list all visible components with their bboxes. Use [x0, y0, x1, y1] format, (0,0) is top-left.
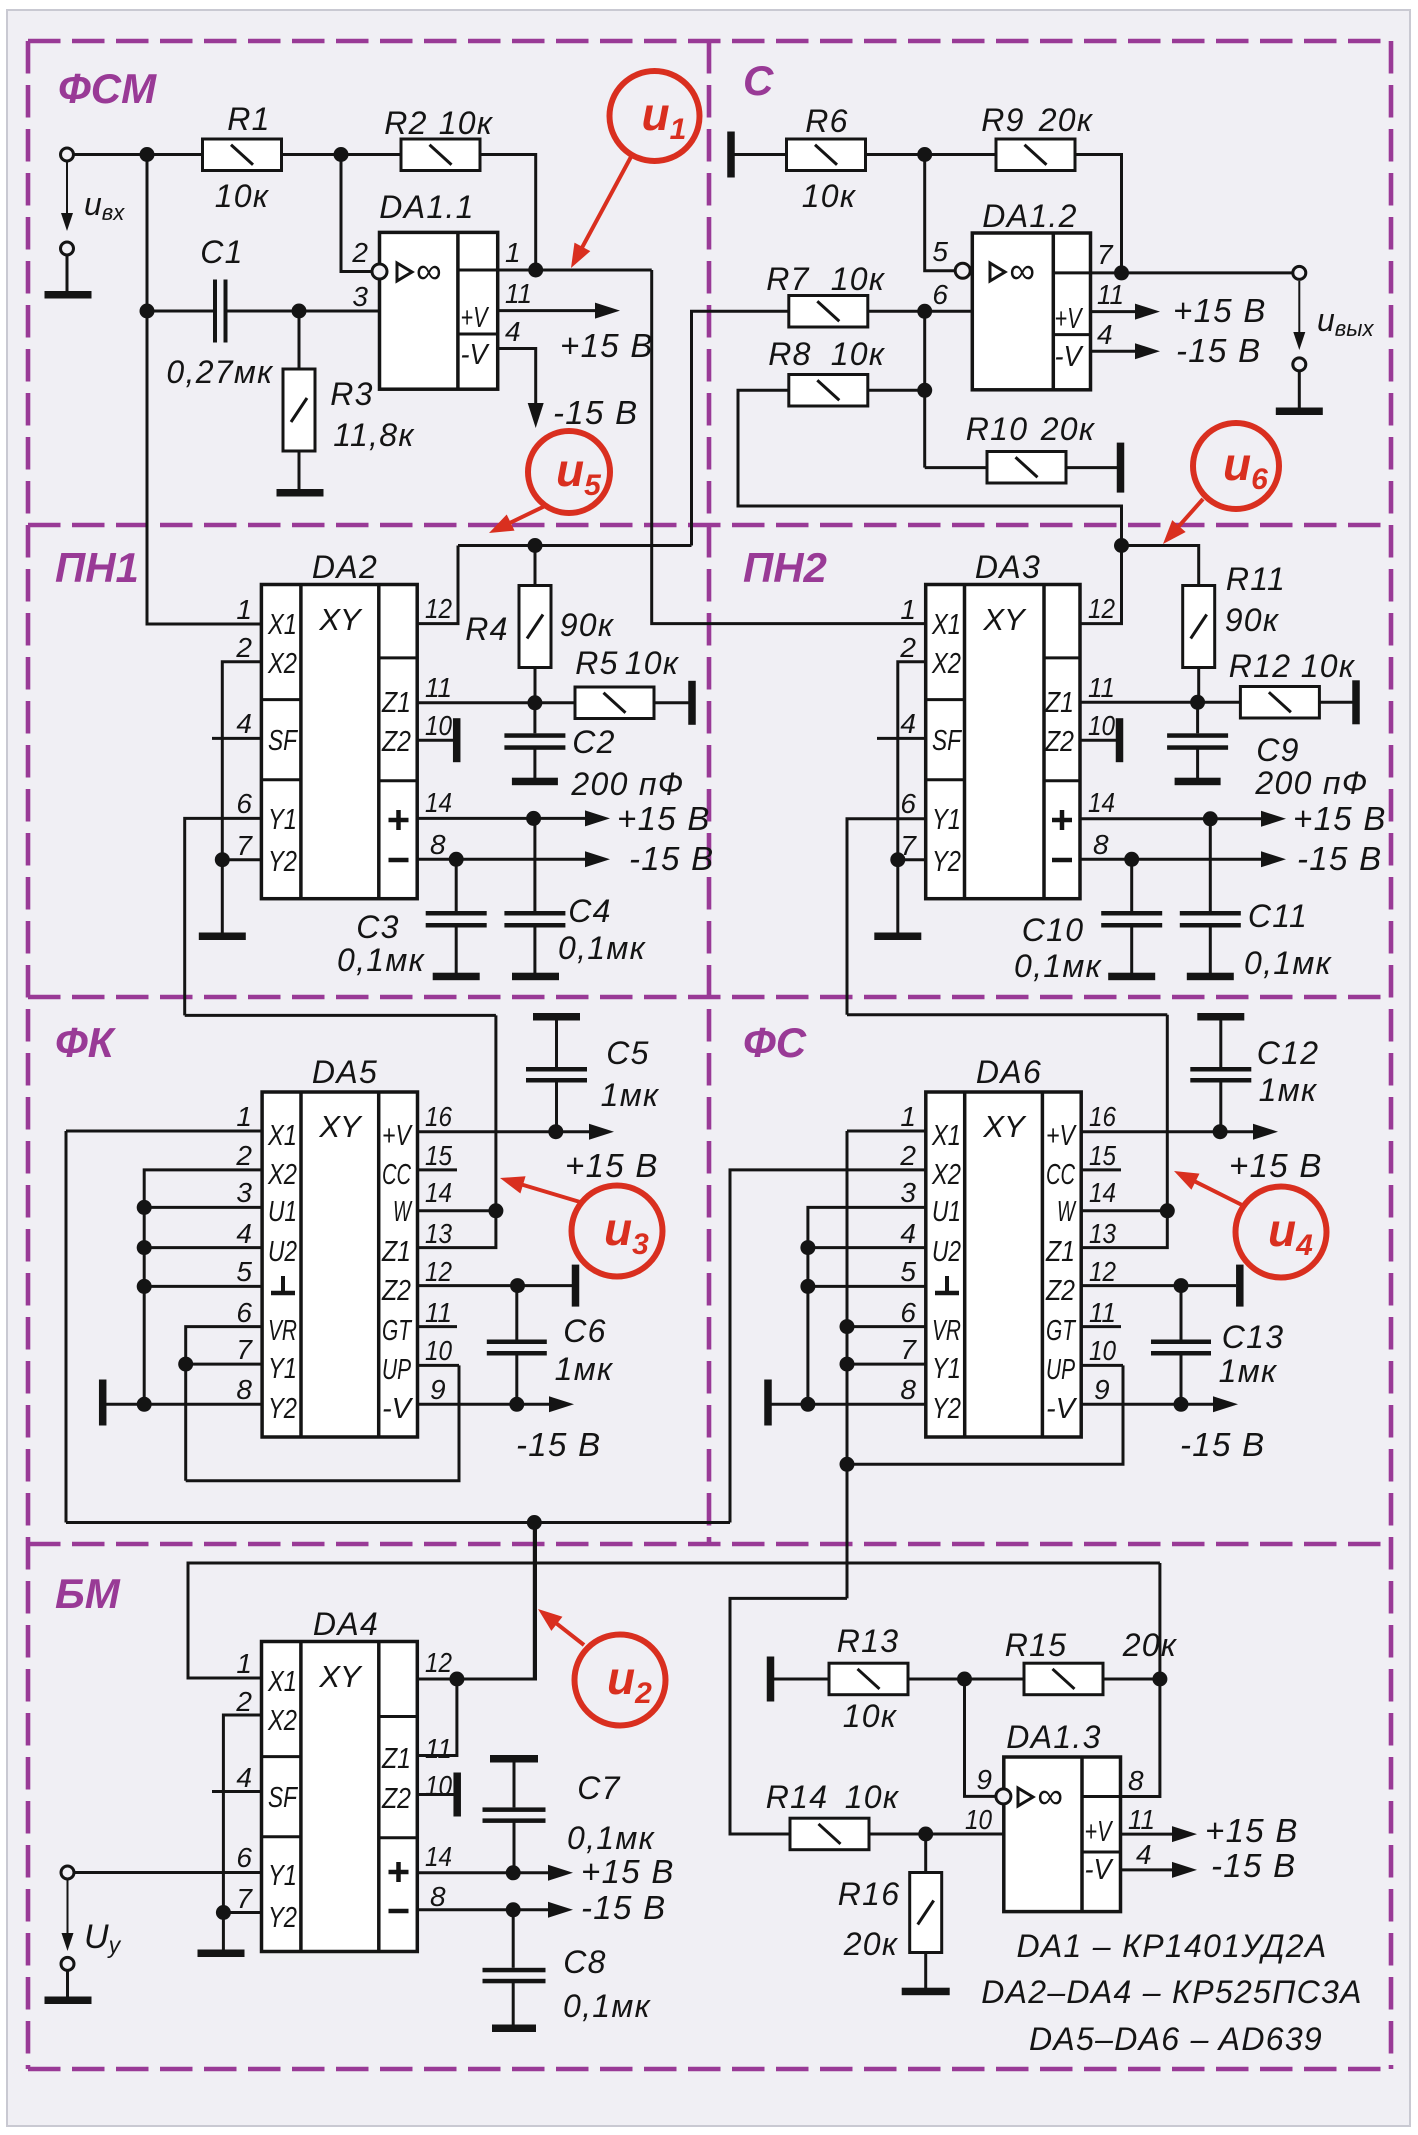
wire C9 top: [1196, 702, 1199, 733]
svg-text:DA1.1: DA1.1: [379, 189, 474, 225]
wire u2 bottom FK: [66, 1521, 730, 1524]
svg-text:C10: C10: [1022, 912, 1085, 948]
ground stub Z2 DA4: [453, 1773, 461, 1817]
resistor R4: [519, 586, 551, 668]
wire C9 bottom: [1196, 749, 1199, 779]
resistor R3: [283, 369, 315, 451]
wire R8 right: [868, 389, 925, 392]
svg-text:-15 В: -15 В: [516, 1426, 601, 1463]
pin 4 wire DA6 U2: [808, 1246, 926, 1249]
svg-text:SF: SF: [932, 725, 963, 757]
node C1 left junction: [140, 304, 155, 319]
pin 11 stub DA6 GT: [1081, 1325, 1121, 1328]
op-amp DA1.2 triangle: [990, 263, 1005, 281]
svg-text:-15 В: -15 В: [581, 1889, 666, 1926]
svg-text:X1: X1: [267, 1666, 297, 1698]
pin 7 wire DA2 Y2: [222, 858, 261, 861]
capacitor C10: [1101, 911, 1162, 916]
ground R3: [277, 489, 324, 497]
svg-text:ФСМ: ФСМ: [58, 65, 157, 112]
node u5 junction R4 top: [528, 538, 543, 553]
svg-text:90к: 90к: [1225, 602, 1280, 638]
svg-text:XY: XY: [982, 1109, 1027, 1144]
node pin5 junction: [137, 1279, 152, 1294]
svg-text:+V: +V: [461, 302, 490, 334]
svg-text:DA5–DA6 – AD639: DA5–DA6 – AD639: [1029, 2021, 1323, 2057]
svg-text:C9: C9: [1256, 732, 1300, 768]
pin 9 wire DA5 -V: [418, 1403, 550, 1406]
ground stub R12: [1352, 680, 1360, 724]
svg-text:CC: CC: [382, 1159, 412, 1191]
svg-text:C6: C6: [563, 1313, 607, 1349]
svg-text:4: 4: [236, 1762, 252, 1793]
node R6 R9 junction: [917, 147, 932, 162]
svg-text:10: 10: [425, 1335, 452, 1366]
svg-text:0,1мк: 0,1мк: [1244, 945, 1333, 981]
wire R9 to output corner: [1075, 155, 1122, 273]
wire R14 right: [869, 1833, 1004, 1836]
pin 2 wire DA4 X2: [223, 1715, 261, 1913]
svg-text:14: 14: [1089, 1177, 1116, 1208]
svg-text:Z1: Z1: [381, 1743, 411, 1775]
capacitor C6: [487, 1340, 547, 1345]
wire u6 to R11: [1122, 546, 1199, 587]
svg-text:6: 6: [236, 788, 252, 819]
svg-text:R4: R4: [465, 611, 509, 647]
svg-text:∞: ∞: [1009, 250, 1036, 291]
dashed region border bottom: [28, 2067, 1391, 2072]
wire input junction down: [146, 155, 149, 312]
svg-text:C11: C11: [1248, 898, 1308, 934]
svg-text:6: 6: [932, 279, 948, 310]
pin 12 wire DA2: [417, 546, 458, 624]
svg-text:14: 14: [425, 1841, 452, 1872]
pin 6 wire DA3 Y1: [847, 819, 926, 1015]
svg-text:13: 13: [425, 1218, 452, 1249]
svg-text:1: 1: [900, 1101, 916, 1132]
pin 10 wire DA4 Z2: [417, 1793, 454, 1796]
pin 10 wire DA3 Z2: [1080, 739, 1116, 742]
svg-text:U2: U2: [268, 1236, 297, 1268]
wire output ground: [1298, 371, 1301, 408]
dashed divider horizontal 1: [28, 523, 1391, 528]
svg-text:4: 4: [236, 708, 252, 739]
svg-text:X1: X1: [931, 1120, 961, 1152]
svg-text:10к: 10к: [831, 336, 886, 372]
wire junction to R3: [298, 311, 301, 369]
svg-text:DA5: DA5: [312, 1054, 378, 1090]
node R8 junction: [917, 383, 932, 398]
pin 7 wire DA4 Y2: [223, 1911, 261, 1914]
pin 1 wire DA5 X1: [66, 1130, 262, 1133]
pin 1 wire DA6 X1: [847, 1130, 926, 1133]
wire R14 to R16: [924, 1834, 927, 1873]
svg-text:R11: R11: [1226, 561, 1286, 597]
pin 11 wire DA2 Z1: [417, 701, 575, 704]
svg-text:11: 11: [505, 278, 532, 309]
svg-text:5: 5: [236, 1256, 252, 1287]
terminal U_y lower: [61, 1957, 74, 1970]
svg-text:Y1: Y1: [268, 804, 297, 836]
svg-text:4: 4: [900, 708, 916, 739]
node Z1 junction PN1: [527, 695, 542, 710]
ground stub DA6 Y2: [764, 1380, 772, 1426]
wire pin2 up: [341, 155, 371, 272]
terminal u_vx lower: [61, 242, 74, 255]
wire Y2 to ground DA4: [222, 1913, 225, 1951]
dashed divider horizontal 3: [28, 1542, 1391, 1547]
node Y2 ground junction DA2: [215, 852, 230, 867]
node C1 right junction: [292, 304, 307, 319]
svg-text:11: 11: [1128, 1804, 1155, 1835]
plus symbol DA3: [1060, 810, 1065, 830]
ground stub Z2 DA3: [1116, 718, 1124, 762]
resistor R6: [787, 139, 866, 171]
svg-text:+15 В: +15 В: [560, 327, 654, 364]
svg-text:7: 7: [1097, 239, 1114, 270]
pin 11 wire DA1.1 +15V arrow: [498, 309, 596, 312]
svg-text:Y1: Y1: [932, 804, 961, 836]
svg-text:1: 1: [236, 1648, 252, 1679]
wire U_y ground: [66, 1970, 69, 1997]
pin 8 wire DA6 Y2: [771, 1403, 926, 1406]
svg-text:Y1: Y1: [268, 1353, 297, 1385]
pin 5 ground glyph DA6: [945, 1276, 949, 1293]
svg-text:DA2–DA4 – КР525ПС3А: DA2–DA4 – КР525ПС3А: [981, 1974, 1363, 2010]
node u1 junction: [528, 263, 543, 278]
op-amp DA1.2 body: [972, 233, 1090, 390]
svg-text:11,8к: 11,8к: [333, 417, 415, 453]
svg-text:R14: R14: [766, 1779, 829, 1815]
svg-text:8: 8: [1093, 829, 1109, 860]
node W junction DA6: [1160, 1203, 1175, 1218]
pin 8 wire DA3 -15V: [1080, 858, 1261, 861]
wire R1 to R2: [282, 153, 402, 156]
svg-text:X1: X1: [267, 1120, 297, 1152]
node Y2 junction DA5: [137, 1397, 152, 1412]
ground stub Z2 DA5: [572, 1265, 580, 1307]
svg-text:8: 8: [430, 1881, 446, 1912]
op-amp DA1.1 body: [380, 232, 498, 389]
svg-text:+V: +V: [1055, 303, 1084, 335]
pin 5 ground glyph DA5: [281, 1276, 285, 1293]
resistor R2: [401, 139, 480, 171]
node pin14 junction DA4: [506, 1865, 521, 1880]
plus symbol DA2: [396, 810, 401, 830]
power bar C5: [533, 1013, 580, 1021]
dashed divider horizontal 2: [28, 995, 1391, 1000]
ground stub Z2 DA2: [453, 718, 461, 762]
minus symbol DA4: [389, 1909, 409, 1914]
svg-text:Y1: Y1: [932, 1353, 961, 1385]
pin 14 wire DA5 W: [418, 1209, 496, 1212]
svg-text:0,1мк: 0,1мк: [337, 942, 426, 978]
svg-text:DA4: DA4: [313, 1606, 379, 1642]
wire R7 left from u5: [692, 311, 789, 545]
svg-text:C7: C7: [577, 1770, 621, 1806]
svg-text:10: 10: [425, 710, 452, 741]
svg-text:-15 В: -15 В: [1297, 840, 1382, 877]
svg-text:-V: -V: [1046, 1393, 1078, 1425]
op-amp DA1.3 body: [1004, 1757, 1121, 1912]
svg-text:ФК: ФК: [55, 1019, 117, 1066]
svg-text:1: 1: [900, 594, 916, 625]
ground R16: [902, 1988, 950, 1996]
node pin8 junction DA4: [506, 1902, 521, 1917]
pin 5 wire DA5 gnd: [144, 1285, 262, 1288]
wire R4 top: [534, 546, 537, 587]
svg-text:10к: 10к: [439, 105, 494, 141]
node Y2 junction DA4: [216, 1905, 231, 1920]
capacitor C12: [1190, 1067, 1251, 1072]
pin 8 wire DA4 -15V: [417, 1908, 548, 1911]
svg-text:-V: -V: [1085, 1854, 1114, 1886]
node u1 marker arrow: [581, 155, 632, 250]
node R13 R15 junction: [957, 1672, 972, 1687]
svg-text:2: 2: [235, 632, 252, 663]
svg-text:2: 2: [235, 1140, 252, 1171]
svg-text:U1: U1: [932, 1196, 961, 1228]
svg-text:C2: C2: [572, 724, 616, 760]
capacitor C9: [1167, 733, 1228, 738]
svg-text:DA1.3: DA1.3: [1006, 1719, 1101, 1755]
svg-text:Z1: Z1: [381, 687, 411, 719]
svg-text:10к: 10к: [802, 178, 857, 214]
svg-text:Y2: Y2: [932, 846, 961, 878]
svg-text:6: 6: [900, 788, 916, 819]
svg-text:DA1.2: DA1.2: [982, 198, 1077, 234]
svg-text:ПН1: ПН1: [55, 544, 139, 591]
svg-text:14: 14: [1088, 787, 1115, 818]
node u5 marker arrow: [507, 505, 547, 524]
wire Y1 feedback top FK: [185, 1014, 496, 1017]
wire u2 vertical: [533, 1523, 536, 1680]
svg-text:-15 В: -15 В: [1211, 1847, 1296, 1884]
resistor R7: [789, 296, 868, 328]
pin 4 wire DA1.2 -15V arrow: [1091, 350, 1136, 353]
svg-text:15: 15: [1089, 1140, 1116, 1171]
wire R7 right: [868, 310, 973, 313]
svg-text:+15 В: +15 В: [1229, 1147, 1323, 1184]
svg-text:4: 4: [900, 1218, 916, 1249]
svg-text:SF: SF: [268, 725, 299, 757]
wire pin6 down to R10: [923, 311, 926, 467]
svg-text:10к: 10к: [845, 1779, 900, 1815]
node Y2 junction DA6: [800, 1397, 815, 1412]
pin 4 wire DA5 U2: [144, 1246, 262, 1249]
pin 7 wire DA3 Y2: [898, 858, 926, 861]
pin 12 wire DA4: [417, 1523, 535, 1680]
wire R10 to ground: [1066, 466, 1117, 469]
svg-text:R15: R15: [1005, 1627, 1068, 1663]
capacitor C5: [526, 1067, 587, 1072]
svg-text:3: 3: [900, 1177, 916, 1208]
svg-text:-15 В: -15 В: [629, 840, 714, 877]
node U2 junction DA6: [800, 1240, 815, 1255]
multiplier DA3 body: [926, 585, 1080, 899]
svg-text:X2: X2: [267, 1705, 297, 1737]
svg-text:11: 11: [425, 1733, 452, 1764]
ground C10: [1108, 973, 1155, 981]
svg-text:4: 4: [1097, 319, 1113, 350]
svg-text:15: 15: [425, 1140, 452, 1171]
wire junction down to pin5: [925, 155, 955, 271]
pin 6 wire DA5 VR: [186, 1327, 262, 1481]
node Y1 junction DA5: [178, 1357, 193, 1372]
svg-text:-V: -V: [1055, 341, 1084, 373]
svg-text:3: 3: [236, 1177, 252, 1208]
svg-text:UP: UP: [382, 1354, 411, 1386]
ground DA4 Y2: [198, 1950, 245, 1958]
svg-text:Y1: Y1: [268, 1860, 297, 1892]
wire VR bus to UP DA5: [186, 1365, 459, 1480]
pin 10 wire DA2 Z2: [417, 739, 453, 742]
wire C1 row: [147, 310, 214, 313]
svg-text:XY: XY: [982, 602, 1027, 637]
node bus bottom junction DA6: [840, 1457, 855, 1472]
svg-text:+V: +V: [1046, 1120, 1077, 1152]
node R14 R16 junction: [918, 1827, 933, 1842]
pin 4 stub DA2 SF: [212, 737, 261, 740]
svg-text:11: 11: [425, 672, 452, 703]
svg-text:16: 16: [425, 1101, 452, 1132]
pin 6 wire DA4 Y1: [74, 1871, 262, 1874]
ground C11: [1187, 973, 1234, 981]
pin 6 wire DA6 VR: [847, 1325, 926, 1328]
svg-text:1мк: 1мк: [1259, 1072, 1318, 1108]
wire junction to pin9 DA1.3: [965, 1679, 996, 1796]
svg-text:X2: X2: [931, 648, 961, 680]
resistor R10: [987, 452, 1066, 484]
svg-text:12: 12: [1088, 593, 1115, 624]
svg-text:20к: 20к: [1040, 411, 1096, 447]
svg-text:R9: R9: [981, 102, 1025, 138]
svg-text:Z2: Z2: [381, 1275, 411, 1307]
svg-text:C12: C12: [1257, 1035, 1320, 1071]
node input junction: [140, 147, 155, 162]
capacitor C11: [1180, 911, 1241, 916]
resistor R15: [1024, 1663, 1103, 1695]
pin 2 wire DA5 X2: [144, 1170, 262, 1404]
ground C8: [492, 2025, 536, 2033]
svg-text:Z1: Z1: [381, 1236, 411, 1268]
node Z2 junction C6: [510, 1278, 525, 1293]
pin 12 wire DA5 Z2: [418, 1284, 573, 1287]
svg-text:W: W: [1057, 1196, 1077, 1228]
svg-text:7: 7: [236, 830, 253, 861]
node VR junction DA6: [840, 1319, 855, 1334]
pin 14 wire DA2 +15V: [417, 817, 585, 820]
svg-text:6: 6: [236, 1297, 252, 1328]
svg-text:C3: C3: [356, 909, 400, 945]
svg-text:XY: XY: [318, 602, 363, 637]
pin 4 stub DA4 SF: [212, 1790, 262, 1793]
pin 7 wire DA6 Y1: [847, 1363, 926, 1366]
capacitor C4: [504, 911, 565, 916]
node u4 marker circle: [1236, 1187, 1327, 1278]
svg-text:C13: C13: [1222, 1319, 1285, 1355]
svg-text:200 пФ: 200 пФ: [570, 766, 684, 802]
svg-text:SF: SF: [268, 1782, 299, 1814]
op-amp DA1.3 inv bubble: [996, 1789, 1011, 1804]
ground stub DA5 Y2: [99, 1380, 107, 1426]
svg-text:0,1мк: 0,1мк: [558, 930, 647, 966]
svg-text:+15 В: +15 В: [617, 800, 711, 837]
ground input: [45, 291, 92, 299]
pin 14 wire DA4 +15V: [417, 1871, 548, 1874]
pin 10 wire DA6 UP: [1081, 1364, 1123, 1367]
ground DA2 Y2: [199, 933, 246, 941]
power bar C7: [490, 1755, 538, 1763]
ground stub R6: [727, 132, 735, 178]
svg-text:VR: VR: [932, 1315, 961, 1347]
wire W Z1 tie DA5: [418, 1015, 496, 1247]
svg-text:5: 5: [900, 1256, 916, 1287]
wire R5 to ground: [654, 701, 689, 704]
ground U_y: [45, 1997, 92, 2005]
svg-text:+15 В: +15 В: [1173, 292, 1267, 329]
ground DA3 Y2: [874, 933, 921, 941]
svg-text:13: 13: [1089, 1218, 1116, 1249]
resistor R12: [1240, 687, 1319, 719]
pin 7 wire DA1.2: [1091, 271, 1293, 274]
wire C1 to pin3: [227, 310, 380, 313]
svg-text:Z1: Z1: [1045, 1236, 1075, 1268]
svg-text:+V: +V: [382, 1120, 413, 1152]
capacitor C8: [483, 1968, 546, 1973]
pin 2 wire DA3 X2: [898, 662, 926, 860]
pin 3 wire DA6 U1: [808, 1207, 926, 1404]
ground stub R5: [688, 681, 696, 725]
svg-text:Z2: Z2: [381, 726, 411, 758]
resistor R13: [829, 1663, 908, 1695]
wire bus down to BM: [846, 1464, 849, 1598]
svg-text:10: 10: [1089, 1335, 1116, 1366]
resistor R16: [910, 1873, 942, 1953]
svg-text:UP: UP: [1046, 1354, 1075, 1386]
svg-text:C5: C5: [606, 1035, 650, 1071]
svg-text:11: 11: [1088, 672, 1115, 703]
svg-text:11: 11: [1089, 1297, 1116, 1328]
svg-text:Y2: Y2: [932, 1393, 961, 1425]
minus symbol DA2: [389, 858, 409, 863]
wire Y1 feedback top FS: [847, 1013, 1167, 1016]
wire R13 to R15: [908, 1678, 1024, 1681]
pin 6 wire DA2 Y1: [185, 818, 262, 1015]
wire input to R1: [74, 153, 203, 156]
minus symbol DA3: [1052, 858, 1072, 863]
svg-text:2: 2: [899, 1140, 916, 1171]
svg-text:-15 В: -15 В: [1180, 1426, 1265, 1463]
node Z1 junction PN2: [1190, 695, 1205, 710]
svg-text:X2: X2: [267, 1159, 297, 1191]
ground C4: [512, 973, 559, 981]
pin 15 stub DA5 CC: [418, 1168, 458, 1171]
node pin14 junction: [526, 811, 541, 826]
svg-text:БМ: БМ: [55, 1570, 121, 1617]
svg-text:R5: R5: [575, 645, 619, 681]
node pin12 junction DA4: [449, 1672, 464, 1687]
svg-text:X2: X2: [267, 648, 297, 680]
svg-text:14: 14: [425, 1177, 452, 1208]
wire PN1 top: [458, 544, 692, 547]
node pin7 junction: [1114, 265, 1129, 280]
svg-text:1: 1: [236, 594, 252, 625]
ground output: [1276, 408, 1323, 416]
svg-text:0,1мк: 0,1мк: [563, 1988, 652, 2024]
wire C2 bottom: [533, 749, 536, 779]
svg-text:-15 В: -15 В: [1176, 332, 1261, 369]
